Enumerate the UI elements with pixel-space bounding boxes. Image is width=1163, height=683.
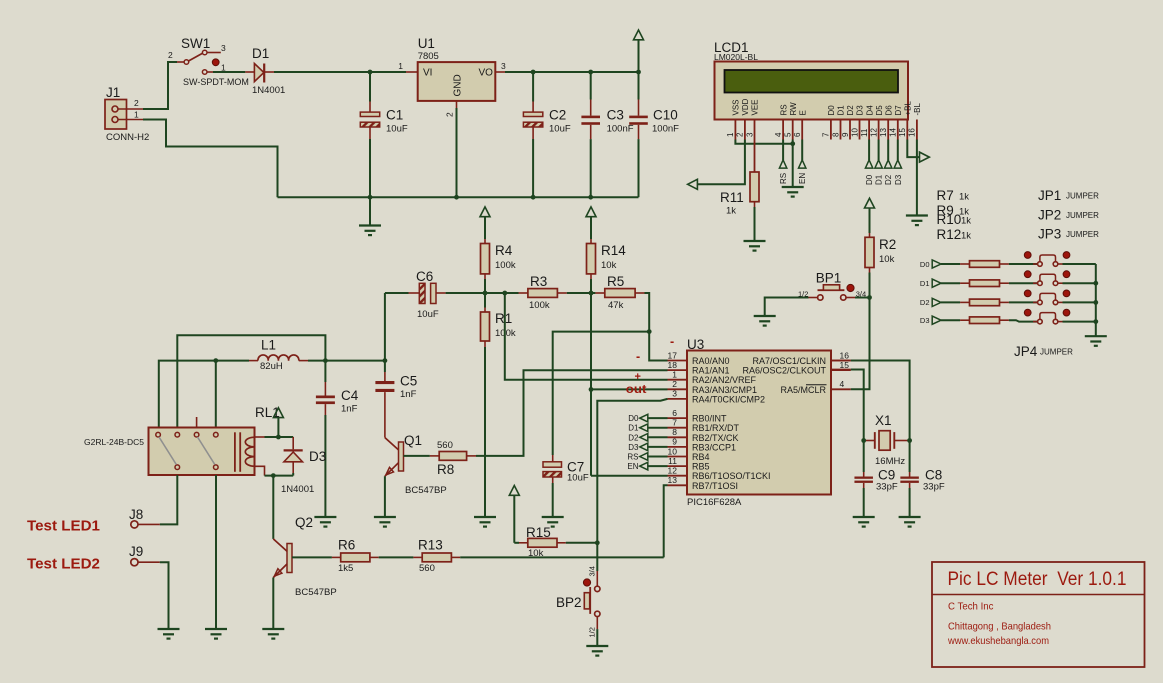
- svg-text:R6: R6: [338, 538, 355, 553]
- svg-text:RB3/CCP1: RB3/CCP1: [692, 442, 736, 452]
- state dot SW1: [212, 59, 219, 66]
- svg-text:C10: C10: [653, 108, 678, 123]
- svg-text:2: 2: [445, 112, 455, 117]
- svg-text:C2: C2: [549, 108, 566, 123]
- svg-text:7: 7: [822, 132, 831, 137]
- svg-text:10k: 10k: [879, 254, 895, 265]
- wire plus net: [505, 293, 668, 380]
- ground under relay: [205, 629, 227, 639]
- wire relay to Q2 collector: [272, 476, 274, 539]
- ic U3 PIC16F628A: [668, 337, 851, 508]
- power arrow +BL: [920, 152, 930, 162]
- jumper JP3: [1033, 293, 1096, 304]
- svg-text:C1: C1: [386, 108, 403, 123]
- svg-text:2: 2: [134, 98, 139, 108]
- svg-text:SW1: SW1: [181, 36, 210, 51]
- svg-text:EN: EN: [627, 462, 638, 471]
- svg-text:100k: 100k: [529, 300, 550, 311]
- svg-text:Test LED2: Test LED2: [27, 556, 100, 573]
- svg-text:D2: D2: [846, 105, 855, 116]
- svg-text:D2: D2: [884, 174, 893, 185]
- svg-text:100nF: 100nF: [652, 123, 679, 134]
- label JP4: [1014, 344, 1073, 359]
- node C5 column: [383, 358, 388, 363]
- terminal RS LCD: [779, 140, 788, 185]
- svg-text:SW-SPDT-MOM: SW-SPDT-MOM: [183, 77, 249, 87]
- svg-text:L1: L1: [261, 337, 276, 352]
- node top rail C2: [531, 70, 536, 75]
- svg-text:D2: D2: [920, 298, 930, 307]
- capacitor C6: [385, 269, 446, 320]
- svg-text:7805: 7805: [418, 51, 439, 62]
- svg-text:47k: 47k: [608, 300, 624, 311]
- terminal D2 jumper row: [920, 298, 970, 307]
- terminal D2 LCD: [884, 140, 893, 186]
- svg-text:VSS: VSS: [732, 99, 741, 115]
- diode D3: [281, 449, 326, 495]
- wire BP2 to ground: [596, 616, 598, 645]
- resistor R12: [970, 317, 1009, 324]
- svg-text:C4: C4: [341, 388, 359, 403]
- svg-text:RA4/T0CKI/CMP2: RA4/T0CKI/CMP2: [692, 394, 765, 404]
- capacitor C4: [316, 361, 359, 517]
- svg-text:10: 10: [850, 128, 859, 137]
- node C4 column: [323, 358, 328, 363]
- node C1 rail: [368, 195, 373, 200]
- wire minus net to pin17: [649, 332, 667, 361]
- svg-text:JP1: JP1: [1038, 188, 1061, 203]
- capacitor C1: [360, 72, 408, 197]
- wire top rail left: [274, 71, 406, 73]
- svg-text:J1: J1: [106, 85, 120, 100]
- transistor Q2: [273, 515, 336, 598]
- svg-text:1: 1: [672, 370, 677, 380]
- wire relay common top: [177, 335, 325, 427]
- node R4 junction: [483, 291, 488, 296]
- svg-text:VDD: VDD: [741, 98, 750, 115]
- terminal EN LCD: [798, 140, 807, 185]
- svg-text:11: 11: [860, 128, 869, 137]
- wire C6 to R3: [446, 292, 519, 294]
- svg-text:U1: U1: [418, 36, 435, 51]
- svg-text:6: 6: [672, 408, 677, 418]
- svg-text:D3: D3: [628, 443, 639, 452]
- svg-text:1: 1: [398, 61, 403, 71]
- svg-text:R10: R10: [937, 212, 962, 227]
- svg-text:RA5/MCLR: RA5/MCLR: [780, 385, 826, 395]
- svg-text:R7: R7: [937, 188, 954, 203]
- svg-text:BC547BP: BC547BP: [295, 587, 337, 598]
- svg-text:R14: R14: [601, 243, 626, 258]
- resistor R14: [587, 239, 627, 293]
- svg-text:D0: D0: [920, 260, 930, 269]
- svg-text:out: out: [626, 384, 647, 396]
- resistor R7: [970, 261, 1009, 268]
- wire RW to ground: [792, 144, 794, 187]
- wire SW1 to D1: [213, 71, 245, 73]
- wire R11 to ground: [754, 207, 756, 241]
- svg-text:1: 1: [134, 110, 139, 120]
- connector J9: [129, 544, 160, 566]
- svg-text:14: 14: [889, 128, 898, 137]
- svg-text:8: 8: [672, 427, 677, 437]
- wire R15 to BP2 node: [566, 542, 598, 544]
- svg-text:CONN-H2: CONN-H2: [106, 132, 149, 143]
- svg-text:10: 10: [668, 446, 678, 456]
- svg-text:Q2: Q2: [295, 515, 313, 530]
- wire relay pin to ground: [215, 475, 217, 629]
- resistor R4: [481, 239, 516, 293]
- ground under RW: [782, 187, 804, 197]
- relay RL1 G2RL-24B-DC5: [84, 417, 255, 475]
- ground under C9: [853, 517, 875, 527]
- svg-text:6: 6: [793, 132, 802, 137]
- wire R13 to pin13: [460, 485, 667, 557]
- transistor Q1: [385, 433, 447, 496]
- wire R5 to minus node: [645, 293, 650, 332]
- svg-text:C8: C8: [925, 468, 942, 483]
- svg-text:17: 17: [668, 350, 678, 360]
- label JP1: [1038, 188, 1099, 203]
- node minus net: [647, 329, 652, 334]
- svg-text:3: 3: [221, 43, 226, 53]
- capacitor C9: [854, 434, 897, 517]
- svg-text:JP3: JP3: [1038, 227, 1061, 242]
- power arrow R2: [865, 198, 875, 233]
- wire J1 pin1 to ground rail: [143, 120, 278, 198]
- capacitor C7: [543, 455, 589, 517]
- wire pin3 net: [597, 399, 667, 543]
- svg-text:Chittagong , Bangladesh: Chittagong , Bangladesh: [948, 621, 1051, 633]
- svg-text:R4: R4: [495, 243, 513, 258]
- node C2 rail: [531, 195, 536, 200]
- svg-text:1N4001: 1N4001: [281, 484, 314, 495]
- svg-text:D1: D1: [252, 46, 269, 61]
- svg-text:8: 8: [831, 132, 840, 137]
- node C3 rail: [588, 195, 593, 200]
- wire pin16 to crystal: [831, 361, 910, 435]
- svg-text:RB7/T1OSI: RB7/T1OSI: [692, 481, 738, 491]
- svg-text:+BL: +BL: [904, 100, 913, 115]
- wire to jumper D2: [1009, 301, 1038, 303]
- svg-text:RB1/RX/DT: RB1/RX/DT: [692, 423, 740, 433]
- node X1 left: [861, 438, 866, 443]
- capacitor C8: [900, 434, 945, 517]
- svg-text:D7: D7: [894, 105, 903, 116]
- node U1 GND rail: [454, 195, 459, 200]
- svg-text:1: 1: [726, 132, 735, 137]
- resistor R11: [720, 172, 759, 217]
- svg-text:12: 12: [869, 128, 878, 137]
- node top rail C3: [588, 70, 593, 75]
- svg-text:1N4001: 1N4001: [252, 85, 285, 96]
- svg-text:D1: D1: [837, 105, 846, 116]
- svg-text:VO: VO: [479, 68, 494, 79]
- svg-text:3: 3: [745, 132, 754, 137]
- jumper JP1: [1033, 255, 1096, 266]
- terminal D0 to U3: [628, 414, 667, 423]
- label JP3: [1038, 227, 1099, 242]
- svg-text:4: 4: [840, 379, 845, 389]
- node bus D1: [1093, 281, 1098, 286]
- svg-text:R3: R3: [530, 274, 547, 289]
- svg-text:D3: D3: [309, 449, 326, 464]
- svg-text:3: 3: [501, 61, 506, 71]
- state dots JP3: [1024, 290, 1070, 297]
- terminal D3 LCD: [894, 140, 903, 186]
- svg-text:C Tech Inc: C Tech Inc: [948, 601, 994, 613]
- svg-text:X1: X1: [875, 413, 892, 428]
- svg-text:7: 7: [672, 418, 677, 428]
- svg-text:D0: D0: [628, 414, 639, 423]
- svg-text:BC547BP: BC547BP: [405, 485, 447, 496]
- svg-text:C9: C9: [878, 468, 895, 483]
- svg-text:D0: D0: [865, 174, 874, 185]
- wire jog row D3: [1009, 320, 1038, 321]
- svg-text:E: E: [798, 110, 807, 115]
- svg-text:C6: C6: [416, 269, 433, 284]
- svg-text:33pF: 33pF: [923, 482, 945, 493]
- node bus D3: [1093, 319, 1098, 324]
- label R9: [937, 203, 970, 218]
- wire VSS to RW: [735, 140, 792, 144]
- diode D1: [245, 46, 285, 96]
- state dots JP4: [1024, 309, 1070, 316]
- svg-text:Q1: Q1: [404, 433, 422, 448]
- pushbutton BP1: [798, 271, 870, 301]
- svg-text:BP1: BP1: [816, 271, 842, 286]
- svg-text:JP4: JP4: [1014, 344, 1038, 359]
- resistor R5: [595, 274, 644, 311]
- power arrow top right: [634, 30, 644, 72]
- title block: [932, 562, 1145, 667]
- ground under -BL: [906, 216, 928, 226]
- svg-text:R2: R2: [879, 237, 896, 252]
- svg-text:D1: D1: [875, 174, 884, 185]
- node out net: [589, 387, 594, 392]
- terminal D2 to U3: [628, 433, 667, 442]
- label R7: [937, 188, 970, 203]
- svg-text:RA0/AN0: RA0/AN0: [692, 356, 730, 366]
- svg-text:1k: 1k: [961, 231, 971, 242]
- svg-text:D0: D0: [827, 105, 836, 116]
- svg-text:Test LED1: Test LED1: [27, 518, 100, 535]
- ground under R11: [744, 241, 766, 251]
- svg-text:R8: R8: [437, 462, 454, 477]
- ground under BP1: [754, 316, 776, 326]
- svg-text:82uH: 82uH: [260, 361, 283, 372]
- wire out net to pin12: [591, 475, 668, 477]
- svg-text:D6: D6: [884, 105, 893, 116]
- svg-text:www.ekushebangla.com: www.ekushebangla.com: [947, 635, 1049, 647]
- svg-text:1nF: 1nF: [400, 389, 417, 400]
- wire relay coil top: [255, 436, 294, 438]
- terminal RS to U3: [627, 453, 667, 462]
- svg-text:-BL: -BL: [913, 103, 922, 116]
- node comparator plus junction: [502, 291, 507, 296]
- svg-text:1k5: 1k5: [338, 563, 353, 574]
- svg-text:9: 9: [841, 132, 850, 137]
- terminal D0 jumper row: [920, 260, 970, 269]
- svg-text:9: 9: [672, 437, 677, 447]
- wire L1 to C5 node: [308, 360, 385, 362]
- node relay pin4 column: [213, 358, 218, 363]
- resistor R2: [865, 233, 896, 273]
- label JP2: [1038, 208, 1099, 223]
- wire L1 row left: [159, 361, 249, 428]
- ground under C4: [314, 517, 336, 527]
- power arrow R4: [480, 207, 490, 239]
- node top rail C1: [368, 70, 373, 75]
- svg-text:10uF: 10uF: [549, 124, 571, 135]
- ground under C8: [899, 517, 921, 527]
- svg-text:1k: 1k: [959, 192, 969, 203]
- svg-text:RS: RS: [779, 104, 788, 115]
- svg-text:RW: RW: [789, 102, 798, 116]
- jumper JP4: [1033, 313, 1096, 324]
- ground under R1: [474, 517, 496, 527]
- svg-text:12: 12: [668, 466, 678, 476]
- svg-text:10uF: 10uF: [567, 473, 589, 484]
- node top rail C10: [636, 70, 641, 75]
- wire relay NO contact to J8: [160, 475, 178, 524]
- terminal D0 LCD: [865, 140, 874, 186]
- svg-text:1k: 1k: [726, 206, 736, 217]
- wire BP1 node to pin4: [851, 298, 870, 390]
- svg-text:10uF: 10uF: [417, 309, 439, 320]
- crystal X1: [864, 413, 910, 467]
- svg-text:3: 3: [672, 389, 677, 399]
- svg-text:RA1/AN1: RA1/AN1: [692, 366, 730, 376]
- svg-text:100nF: 100nF: [607, 123, 634, 134]
- svg-text:-: -: [636, 350, 640, 364]
- wire R3 to R5: [567, 292, 596, 294]
- ground under jumper bus: [1085, 336, 1107, 346]
- wire R1 to ground: [484, 347, 486, 517]
- svg-text:R1: R1: [495, 311, 512, 326]
- wire C6 drop: [384, 293, 386, 361]
- svg-text:RS: RS: [627, 453, 638, 462]
- lcd LCD1 LM020L-BL: [714, 40, 922, 140]
- svg-text:JUMPER: JUMPER: [1066, 230, 1099, 239]
- wire R2 to BP1 node: [869, 273, 871, 298]
- ground under BP2: [586, 646, 608, 656]
- svg-text:RA7/OSC1/CLKIN: RA7/OSC1/CLKIN: [752, 356, 826, 366]
- wire Q2 emitter to ground: [272, 578, 274, 629]
- wire BP1 to ground: [765, 298, 809, 316]
- svg-text:3/4: 3/4: [856, 289, 866, 298]
- label RL1: [255, 405, 280, 420]
- wire relay pin4 up: [215, 361, 217, 428]
- svg-text:JUMPER: JUMPER: [1040, 348, 1073, 357]
- wire coil top to D3: [292, 437, 294, 449]
- ground under C1: [359, 197, 381, 235]
- svg-text:5: 5: [784, 132, 793, 137]
- node R14 junction: [589, 291, 594, 296]
- wire R6 to R13: [379, 556, 414, 558]
- state dots JP2: [1024, 271, 1070, 278]
- node VSS RW: [790, 141, 795, 146]
- wire R8 to pin18: [476, 370, 668, 456]
- svg-text:3/4: 3/4: [588, 566, 597, 576]
- svg-text:R15: R15: [526, 525, 551, 540]
- svg-text:11: 11: [668, 456, 677, 466]
- wire Q1 emitter to ground: [384, 476, 386, 516]
- resistor R6: [332, 538, 379, 575]
- terminal EN to U3: [627, 462, 667, 471]
- svg-text:18: 18: [668, 360, 678, 370]
- svg-text:GND: GND: [453, 74, 464, 96]
- svg-text:R5: R5: [607, 274, 624, 289]
- svg-text:RB0/INT: RB0/INT: [692, 414, 727, 424]
- connector J8: [129, 507, 160, 528]
- svg-text:RA3/AN3/CMP1: RA3/AN3/CMP1: [692, 385, 757, 395]
- node coil top: [276, 435, 281, 440]
- pushbutton BP2: [556, 566, 600, 637]
- svg-text:RS: RS: [779, 173, 788, 184]
- svg-text:JUMPER: JUMPER: [1066, 192, 1099, 201]
- label Test LED2: [27, 556, 100, 573]
- svg-text:U3: U3: [687, 337, 704, 352]
- resistor R9: [970, 280, 1009, 287]
- svg-text:D1: D1: [920, 279, 930, 288]
- wire J1 pin2 to SW1 pole: [143, 62, 177, 109]
- node BP1: [867, 295, 872, 300]
- label R12: [937, 227, 972, 242]
- resistor R3: [519, 274, 567, 311]
- svg-text:JP2: JP2: [1038, 208, 1061, 223]
- svg-text:1k: 1k: [961, 216, 971, 227]
- wire Q2 base: [292, 556, 332, 558]
- resistor R1: [481, 293, 516, 347]
- wire out to pin2: [591, 388, 668, 390]
- svg-text:D2: D2: [628, 433, 639, 442]
- wire bottom rail: [278, 196, 639, 198]
- power arrow R15: [509, 486, 519, 543]
- svg-text:C5: C5: [400, 373, 417, 388]
- svg-text:13: 13: [668, 475, 678, 485]
- svg-text:D3: D3: [856, 105, 865, 116]
- wire VEE to R11: [754, 140, 756, 173]
- svg-text:C3: C3: [607, 108, 624, 123]
- label R10: [937, 212, 972, 227]
- svg-text:RB6/T1OSO/T1CKI: RB6/T1OSO/T1CKI: [692, 471, 771, 481]
- svg-text:BP2: BP2: [556, 595, 582, 610]
- svg-text:1/2: 1/2: [588, 627, 597, 637]
- op-amp pin labels U3: [626, 334, 674, 396]
- node BP2 net: [595, 540, 600, 545]
- capacitor C5: [375, 361, 417, 400]
- svg-text:G2RL-24B-DC5: G2RL-24B-DC5: [84, 437, 144, 447]
- state dot BP1: [847, 284, 854, 291]
- label Test LED1: [27, 518, 100, 535]
- wire +BL to power arrow: [907, 140, 919, 158]
- state dot BP2: [583, 579, 590, 586]
- svg-text:RB4: RB4: [692, 452, 710, 462]
- capacitor C2: [523, 72, 570, 197]
- svg-text:10k: 10k: [601, 260, 617, 271]
- svg-text:D5: D5: [875, 105, 884, 116]
- wire C5 to Q1 collector: [384, 392, 386, 438]
- svg-text:16: 16: [840, 350, 850, 360]
- svg-text:VI: VI: [423, 68, 432, 79]
- svg-text:10k: 10k: [528, 548, 544, 559]
- svg-text:J9: J9: [129, 544, 143, 559]
- connector J1: [105, 85, 149, 143]
- node bus D2: [1093, 300, 1098, 305]
- svg-text:RB5: RB5: [692, 462, 710, 472]
- switch SW1: [168, 36, 249, 87]
